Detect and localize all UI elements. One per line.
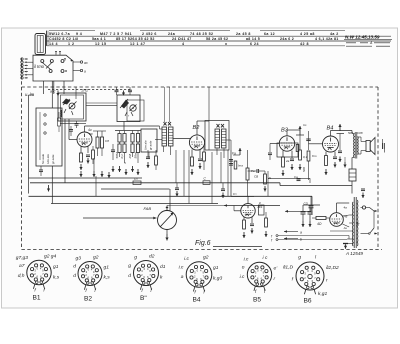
svg-text:a7: a7 xyxy=(19,263,25,269)
mains wire down xyxy=(373,211,375,228)
field coil down xyxy=(351,181,353,194)
svg-text:2M: 2M xyxy=(128,154,132,160)
tuning cap 2 xyxy=(130,105,136,111)
heater wire 1 xyxy=(278,235,349,237)
tone arrow xyxy=(285,210,311,212)
svg-text:a: a xyxy=(300,231,302,235)
tube B5 xyxy=(241,204,255,218)
bus cap 2 xyxy=(221,188,225,190)
wire B5 grid xyxy=(234,210,241,212)
aux arrow a xyxy=(284,231,298,233)
socket B6 xyxy=(296,262,324,290)
wire IF1 sec to B2 grid xyxy=(173,138,191,140)
wire box to osc xyxy=(63,81,65,94)
cluster res 156 xyxy=(155,156,158,165)
can 2 top wires xyxy=(116,87,118,90)
grid bus xyxy=(51,203,218,205)
smoothing cap 2 xyxy=(309,205,311,211)
svg-text:42 8: 42 8 xyxy=(300,42,309,46)
switch dot xyxy=(71,60,73,62)
mains transformer core xyxy=(353,197,355,248)
detector coupling wire xyxy=(248,170,258,172)
svg-text:∂1,D: ∂1,D xyxy=(283,265,293,271)
svg-text:g3: g3 xyxy=(76,256,82,262)
wire B2 anode to IF2 xyxy=(196,121,198,135)
svg-text:d: d xyxy=(128,273,131,279)
svg-text:Um aIe: Um aIe xyxy=(144,140,148,150)
svg-text:g2 g4: g2 g4 xyxy=(44,254,57,260)
wire v 96 xyxy=(95,176,97,196)
wire v 312 xyxy=(311,196,313,215)
svg-text:∂2,D2: ∂2,D2 xyxy=(326,265,339,271)
switch contact A2 xyxy=(50,60,53,63)
oscillator label box xyxy=(141,129,157,152)
coil box inner wire xyxy=(39,112,41,160)
supply arrow above B4 xyxy=(339,124,341,131)
svg-text:12 15: 12 15 xyxy=(95,42,107,46)
cap left of B1 xyxy=(69,129,73,131)
wire v 65 xyxy=(64,119,66,183)
wire v 268 xyxy=(267,186,269,196)
svg-text:x: x xyxy=(225,42,228,46)
earth bus xyxy=(29,177,143,179)
transformer tap 2 xyxy=(349,214,353,216)
svg-text:b: b xyxy=(300,238,302,242)
svg-text:g7,g3: g7,g3 xyxy=(16,255,29,261)
svg-text:a: a xyxy=(181,275,184,280)
svg-text:Bʺ: Bʺ xyxy=(140,294,147,302)
svg-text:gr aoIe: gr aoIe xyxy=(149,140,153,150)
wire IF1 bottoms xyxy=(163,146,165,152)
table rule top xyxy=(49,30,95,32)
table left bracket xyxy=(46,31,48,46)
tuning can 1 xyxy=(58,93,86,121)
switch contact B1 xyxy=(49,70,52,73)
svg-text:4Ω: 4Ω xyxy=(317,222,322,226)
resistor bank row 1 xyxy=(118,134,121,143)
aux arrow b xyxy=(284,238,298,240)
svg-text:B2: B2 xyxy=(84,296,92,303)
detector load resistor xyxy=(246,168,249,180)
gang arrow 1 xyxy=(57,91,59,97)
table rule 3 xyxy=(47,40,392,42)
wire through can 1 xyxy=(75,87,77,93)
can 2 top caps xyxy=(115,89,119,91)
output transformer core xyxy=(354,132,356,159)
supply rail to caps xyxy=(303,204,320,206)
coil box ground xyxy=(48,185,50,192)
table rule 2 xyxy=(47,35,392,37)
left resistor pair xyxy=(96,137,99,148)
svg-text:il Imo: il Imo xyxy=(34,64,45,69)
svg-text:C8: C8 xyxy=(105,139,109,143)
can 2 scribble xyxy=(121,100,129,109)
svg-text:d2: d2 xyxy=(149,254,155,260)
socket B5 xyxy=(247,262,271,286)
bank ground 1 xyxy=(119,166,121,172)
svg-text:B1: B1 xyxy=(33,295,41,302)
svg-text:B6: B6 xyxy=(304,298,312,305)
svg-text:85 17 5264 35 42 52: 85 17 5264 35 42 52 xyxy=(116,37,155,41)
socket B1 xyxy=(27,260,51,284)
cluster res 93 xyxy=(92,150,95,159)
chassis boundary bottom xyxy=(22,249,383,251)
B4 cathode resistor xyxy=(325,152,327,156)
B4 cathode cap xyxy=(334,152,336,157)
svg-text:5o aole: 5o aole xyxy=(41,154,45,164)
svg-text:i.c: i.c xyxy=(179,265,184,271)
terminal wires into box xyxy=(28,61,33,63)
wire v 51b xyxy=(51,166,53,204)
resistor bank top bus xyxy=(115,130,141,132)
tube B4 xyxy=(323,136,339,152)
svg-text:1 2: 1 2 xyxy=(68,42,75,46)
wire rect anode 1 xyxy=(336,203,338,213)
svg-text:k,s: k,s xyxy=(104,275,111,281)
tone cap xyxy=(310,196,312,205)
switch T marks xyxy=(55,52,57,55)
svg-text:gr aole: gr aole xyxy=(51,154,55,164)
svg-text:Um aIe: Um aIe xyxy=(46,154,50,164)
vertical to volume pot xyxy=(169,189,171,211)
series cap on bus xyxy=(203,181,210,185)
wire OPT to speaker xyxy=(360,137,362,142)
svg-text:Sp: Sp xyxy=(355,222,359,226)
IF transformer 1 xyxy=(162,127,167,146)
svg-text:g2: g2 xyxy=(93,255,99,261)
gang link dashed xyxy=(48,89,132,91)
hum cap wires xyxy=(382,139,384,143)
osc coupling cap xyxy=(111,149,115,151)
tube B2 xyxy=(189,135,204,150)
wire v 189 xyxy=(188,150,190,204)
IF1 trimmer feeds xyxy=(164,87,166,122)
svg-text:k,s: k,s xyxy=(53,275,60,281)
volume pot top lead xyxy=(166,206,168,211)
svg-text:B2: B2 xyxy=(193,125,201,131)
mains transformer secondary xyxy=(356,200,359,246)
wire B4 grid coupling xyxy=(309,143,323,145)
B3 cathode leg xyxy=(282,151,284,157)
wire B1 cathode down xyxy=(80,146,82,153)
coil box inner comp xyxy=(58,118,61,126)
B4 grid cap upper xyxy=(306,138,311,140)
svg-text:B3: B3 xyxy=(281,128,289,134)
wire gang1 to B1 grid xyxy=(68,119,70,140)
table rule bottom xyxy=(47,45,346,47)
tuning can 2 xyxy=(117,95,140,122)
heater cap xyxy=(343,243,348,245)
svg-text:2a: 2a xyxy=(285,159,290,163)
svg-text:g1: g1 xyxy=(53,264,59,270)
B5 screen xyxy=(251,217,253,223)
socket B4 xyxy=(186,262,212,288)
detector cap on drop xyxy=(229,159,233,161)
svg-text:d: d xyxy=(73,264,76,270)
bank row2 tails xyxy=(119,153,121,158)
wire rod to switchbox xyxy=(39,54,41,57)
cluster cap 148 xyxy=(146,156,150,158)
speaker cap xyxy=(382,143,384,149)
transformer tap 4 xyxy=(330,230,353,232)
note dash row 2 xyxy=(346,45,372,47)
wire B1 anode to IF1 xyxy=(84,126,86,132)
volume pot ground xyxy=(166,230,168,235)
Fig 6 underline xyxy=(213,246,262,248)
B1 cathode resistor xyxy=(80,153,83,162)
coil box contact 3 xyxy=(44,132,46,134)
svg-text:i.c: i.c xyxy=(240,274,245,280)
svg-text:Im: Im xyxy=(303,123,307,127)
wire rect anode 2 xyxy=(343,215,350,216)
socket B2 xyxy=(78,262,102,286)
B4 grid resistor xyxy=(307,151,310,161)
svg-text:a C: a C xyxy=(50,90,56,94)
B5 cathode resistor xyxy=(243,217,245,220)
svg-text:ao: ao xyxy=(84,61,88,65)
wire box down long 2 xyxy=(53,81,55,94)
svg-text:N.W 12.45,13.59: N.W 12.45,13.59 xyxy=(345,34,380,39)
svg-text:50m: 50m xyxy=(134,152,138,158)
wire v 228 xyxy=(227,150,229,196)
left pair tails xyxy=(97,148,99,156)
svg-text:M47 7 2 5 7 941: M47 7 2 5 7 941 xyxy=(100,32,132,36)
svg-text:50: 50 xyxy=(89,132,93,136)
box output wire 2 xyxy=(73,70,80,72)
svg-text:2Π2: 2Π2 xyxy=(81,89,89,93)
mains switch xyxy=(361,233,369,235)
detector resistor Ja xyxy=(264,174,267,184)
chassis boundary top xyxy=(22,86,379,88)
B3 screen leg xyxy=(291,151,293,158)
svg-text:H6: H6 xyxy=(344,215,348,219)
B1 screen cap xyxy=(86,154,90,156)
bank ground 3 xyxy=(132,166,134,172)
mains arrow top xyxy=(374,210,377,212)
svg-text:4a: 4a xyxy=(344,206,348,210)
avc return line xyxy=(268,177,310,179)
svg-text:k,g1: k,g1 xyxy=(318,291,328,297)
svg-text:9 4: 9 4 xyxy=(76,32,82,36)
svg-text:4a 2: 4a 2 xyxy=(330,32,339,36)
transformer tap 6 xyxy=(347,243,353,245)
svg-text:C≈: C≈ xyxy=(233,192,237,196)
wire rect cathode xyxy=(343,224,350,227)
field coil xyxy=(349,169,356,181)
svg-text:2a 45 8: 2a 45 8 xyxy=(236,32,251,36)
field coil wire xyxy=(351,158,353,170)
svg-text:12 1 47: 12 1 47 xyxy=(130,42,146,46)
svg-text:i c: i c xyxy=(263,255,268,261)
svg-text:74 48 25 52: 74 48 25 52 xyxy=(190,32,213,36)
wire v 221 xyxy=(220,152,222,183)
box output wire 1 xyxy=(73,61,80,63)
svg-text:g1: g1 xyxy=(213,265,219,271)
smoothing cap 1 xyxy=(302,205,304,211)
wire box down long xyxy=(51,81,53,108)
tuning cap 1 xyxy=(69,103,75,109)
arrow bus xyxy=(224,205,280,207)
B2 cathode resistor xyxy=(191,150,193,158)
bank vertical drops xyxy=(119,131,121,134)
svg-text:5aa 4 1: 5aa 4 1 xyxy=(92,37,106,41)
svg-text:24a: 24a xyxy=(168,32,176,36)
svg-text:g2: g2 xyxy=(203,255,209,261)
svg-text:Fig.6: Fig.6 xyxy=(195,240,211,247)
svg-text:C≈: C≈ xyxy=(134,177,138,181)
B3 resistor right xyxy=(299,150,302,160)
can 1 trimmer below xyxy=(75,123,79,125)
bus cap 3 xyxy=(361,188,365,190)
svg-text:Ima: Ima xyxy=(238,164,243,168)
svg-text:CB: CB xyxy=(254,175,258,179)
socket B3 xyxy=(134,261,159,286)
output section ground xyxy=(344,162,346,168)
svg-text:g1: g1 xyxy=(104,265,110,271)
tube B3 xyxy=(279,136,294,151)
svg-text:A: A xyxy=(369,41,373,45)
B5 right resistor xyxy=(265,218,268,227)
switch wiper xyxy=(42,63,50,70)
note dash row 1 xyxy=(346,42,356,44)
output transformer primary xyxy=(353,134,356,158)
supply arrow above B3 xyxy=(299,126,301,135)
gang arrow 2 xyxy=(123,91,125,96)
svg-text:o: o xyxy=(242,266,245,271)
svg-text:4 25 a8: 4 25 a8 xyxy=(300,32,315,36)
AVC bus xyxy=(29,195,313,197)
svg-text:B4: B4 xyxy=(193,297,201,304)
svg-text:6 24: 6 24 xyxy=(250,42,259,46)
can 1 marks xyxy=(72,111,74,115)
svg-text:u. lm: u. lm xyxy=(25,92,35,97)
wire v 184 xyxy=(183,150,185,196)
svg-text:C4452 8 C2 14l: C4452 8 C2 14l xyxy=(49,37,78,41)
wire v 176 xyxy=(175,150,177,183)
resistor bank row 2 xyxy=(118,144,121,153)
svg-text:A 12549: A 12549 xyxy=(345,251,363,256)
grid stopper xyxy=(167,205,224,207)
note underline xyxy=(344,39,392,41)
coil box xyxy=(36,108,62,166)
can 2 marks xyxy=(125,112,127,116)
speaker xyxy=(366,141,370,152)
svg-text:a: a xyxy=(84,70,86,74)
rectifier tube B6 xyxy=(330,213,344,227)
detector bottom wire xyxy=(231,196,254,198)
can link wires xyxy=(86,102,117,104)
svg-text:FAB: FAB xyxy=(144,206,152,211)
bank ground 2 xyxy=(125,169,127,175)
transformer tap 5 xyxy=(347,238,353,240)
left pair ground xyxy=(101,171,103,177)
svg-text:i.c: i.c xyxy=(244,257,249,263)
series comp on bus 2 xyxy=(133,181,141,185)
svg-text:4 6,1 42a 81: 4 6,1 42a 81 xyxy=(315,37,339,41)
B3 unit box xyxy=(277,143,298,157)
bus cap 1 xyxy=(175,187,179,189)
svg-text:500: 500 xyxy=(348,131,353,135)
svg-text:C08: C08 xyxy=(357,131,363,135)
svg-text:4: 4 xyxy=(182,42,185,46)
chassis boundary right xyxy=(377,87,379,250)
OPT bottom drop xyxy=(339,134,341,151)
svg-text:58 2a 45 62: 58 2a 45 62 xyxy=(206,37,228,41)
svg-text:d: d xyxy=(73,273,76,279)
coil box comp xyxy=(39,169,43,171)
B5 grid box xyxy=(259,205,265,215)
switch contact A3 xyxy=(61,60,64,63)
svg-text:50M: 50M xyxy=(115,152,119,158)
coil box contact 2 xyxy=(44,123,46,125)
B3 grid cap xyxy=(268,152,272,154)
IF transformer 2 xyxy=(215,129,220,148)
antenna rod xyxy=(35,34,46,55)
svg-text:0,1: 0,1 xyxy=(120,154,124,159)
B1 ground row xyxy=(93,171,95,177)
wire IF2 to detector xyxy=(216,149,218,155)
heater wire 2 xyxy=(278,239,347,241)
mains fuse xyxy=(361,207,363,209)
heater wire taps xyxy=(348,236,350,240)
svg-text:Km: Km xyxy=(312,154,317,158)
volume pot xyxy=(158,211,177,230)
can 1 coil xyxy=(61,110,63,117)
svg-text:g: g xyxy=(298,256,301,261)
detector trimmer arrow xyxy=(239,148,241,155)
svg-text:k,g3: k,g3 xyxy=(213,276,223,282)
mains transformer primary xyxy=(351,202,354,246)
coil box contact 1 xyxy=(44,114,46,116)
left pair drops xyxy=(97,131,99,137)
detector res Ima xyxy=(234,161,237,169)
chassis boundary left xyxy=(21,58,23,250)
volume wire xyxy=(265,170,268,172)
detector drop wire xyxy=(230,150,232,197)
output transformer secondary xyxy=(357,137,360,155)
pickup bus xyxy=(83,217,157,219)
wire gang2 down xyxy=(123,122,125,131)
svg-text:g: g xyxy=(128,264,131,269)
switch contact A1 xyxy=(41,60,44,63)
svg-text:500: 500 xyxy=(302,167,306,172)
svg-text:24 Ω41 47: 24 Ω41 47 xyxy=(172,37,192,41)
left long wire xyxy=(28,95,30,194)
terminal strip xyxy=(21,58,23,60)
IF2 box xyxy=(205,121,229,151)
svg-text:5W12 6.7a: 5W12 6.7a xyxy=(49,32,71,36)
svg-text:g: g xyxy=(134,256,137,261)
switch contact B2 xyxy=(61,70,64,73)
wire below can1 xyxy=(60,122,86,124)
HT bus xyxy=(30,182,280,184)
svg-text:B5: B5 xyxy=(253,297,261,304)
wire box to gang1 xyxy=(43,81,45,94)
dropper resistor xyxy=(316,217,326,220)
terminal arrows xyxy=(25,58,29,60)
svg-text:d,h: d,h xyxy=(18,273,25,279)
svg-text:6a 12: 6a 12 xyxy=(264,32,275,36)
mains arrow bottom xyxy=(374,233,377,235)
svg-text:i.c: i.c xyxy=(184,256,189,262)
tube B1 xyxy=(77,132,92,147)
B3 anode wire xyxy=(286,130,288,136)
bus wire 2 xyxy=(101,188,170,190)
bank mid tails xyxy=(119,142,121,144)
B2 screen cap xyxy=(199,150,201,159)
transformer tap 3 xyxy=(349,222,353,224)
svg-text:24a 6 2: 24a 6 2 xyxy=(280,37,294,41)
